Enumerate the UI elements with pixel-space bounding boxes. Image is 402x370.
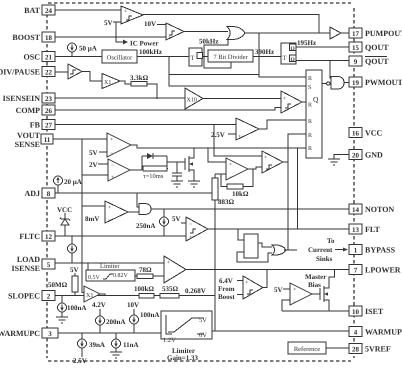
- opamp U18 load amp: [164, 256, 186, 283]
- wire 5V to U1: [113, 21, 121, 23]
- svg-text:19: 19: [352, 79, 360, 87]
- wire 6.4V to U20 plus: [237, 280, 243, 282]
- ground under I5: [56, 317, 68, 323]
- wire U14 output to latch: [283, 134, 306, 162]
- pin 13 FLT: [349, 224, 380, 234]
- svg-text:200nA: 200nA: [106, 318, 125, 326]
- resistor R4 10k feedback: [221, 169, 253, 198]
- svg-text:SENSE: SENSE: [15, 140, 40, 149]
- wire U12 output to tau network: [130, 169, 142, 171]
- svg-text:50 µA: 50 µA: [79, 45, 97, 53]
- svg-text:GND: GND: [365, 151, 383, 160]
- svg-text:0.5V: 0.5V: [88, 275, 101, 281]
- wire 10V to U2: [157, 24, 166, 26]
- wire divider to T flip-flop U4: [253, 56, 281, 58]
- wire U9 to latch R: [302, 102, 306, 104]
- svg-text:10V: 10V: [144, 20, 156, 28]
- wire U2 output to OR gate: [184, 31, 228, 33]
- svg-text:7 Bit Divider: 7 Bit Divider: [213, 54, 248, 61]
- svg-text:WARMUPV: WARMUPV: [365, 328, 402, 337]
- wire U20 to LPOWER: [263, 270, 267, 288]
- svg-text:IC Power: IC Power: [130, 40, 159, 48]
- wire U1 output to pump line: [143, 15, 319, 34]
- pin 21 OSC: [24, 52, 55, 62]
- pin 5 LOAD ISENSE: [12, 255, 55, 273]
- svg-text:50MΩ: 50MΩ: [48, 281, 68, 289]
- tau network node left: [141, 156, 143, 170]
- svg-text:14: 14: [352, 206, 360, 214]
- svg-text:QOUT: QOUT: [365, 57, 389, 66]
- wire IC Power branch: [116, 22, 123, 42]
- pin 2 SLOPEC: [8, 291, 55, 301]
- capacitor C1: [172, 162, 182, 181]
- resistor R3 883: [212, 174, 235, 331]
- wire U11 output to R bus: [131, 145, 306, 148]
- svg-text:5V: 5V: [89, 149, 98, 157]
- svg-text:VCC: VCC: [365, 129, 383, 138]
- svg-text:To: To: [327, 237, 335, 245]
- svg-text:18: 18: [45, 34, 53, 42]
- wire U4 Qbar to QOUTbar: [296, 60, 349, 62]
- wire U13 to comparator U14: [248, 167, 262, 169]
- svg-text:5V: 5V: [70, 266, 79, 274]
- wire ADJ branch to G3: [137, 193, 139, 207]
- svg-text:R: R: [308, 133, 312, 139]
- wire FLT to latch R: [297, 148, 299, 230]
- zener D2: [60, 213, 70, 236]
- divider block 7 bit: [208, 50, 253, 62]
- svg-text:1.2V: 1.2V: [163, 337, 176, 344]
- wire latch R77 feed: [259, 33, 306, 77]
- svg-text:Boost: Boost: [218, 293, 235, 301]
- tau network node right: [166, 156, 168, 169]
- svg-text:X10: X10: [187, 98, 197, 104]
- svg-text:ISENSEIN: ISENSEIN: [3, 94, 41, 103]
- wire bus to U12 plus: [82, 174, 108, 176]
- svg-text:T: T: [191, 55, 195, 62]
- wire X1 to resistor: [120, 81, 131, 84]
- wire 50kHz tap to G1: [204, 38, 228, 57]
- pin 19 PWMOUT: [349, 77, 402, 87]
- current source I4 250nA: [136, 209, 169, 236]
- svg-text:3: 3: [48, 330, 52, 338]
- resistor R6 50M: [48, 273, 78, 296]
- svg-text:250nA: 250nA: [136, 222, 155, 230]
- wire 2.5V to U10: [228, 133, 236, 135]
- diode D1: [142, 153, 167, 159]
- buffer X1 U19: [84, 286, 100, 302]
- current source I7 100nA: [130, 309, 160, 333]
- wire ISENSEIN to X10: [55, 97, 185, 99]
- latch U15 RS: [306, 70, 322, 158]
- wire U3 to divider: [202, 56, 208, 58]
- svg-text:27: 27: [45, 122, 53, 130]
- svg-text:Bias: Bias: [308, 281, 321, 289]
- svg-text:FLTC: FLTC: [19, 232, 40, 241]
- wire QOUTbar branch to G2: [330, 61, 331, 79]
- svg-text:390Hz: 390Hz: [255, 48, 274, 56]
- comparator U14: [262, 151, 283, 173]
- svg-text:2V: 2V: [89, 161, 98, 169]
- limiter block: [86, 263, 135, 281]
- svg-text:S: S: [308, 85, 311, 91]
- svg-text:BYPASS: BYPASS: [365, 246, 396, 255]
- wire FB branch to bus: [214, 125, 262, 157]
- svg-text:Gain=1.33: Gain=1.33: [167, 354, 199, 362]
- svg-text:11nA: 11nA: [123, 341, 139, 349]
- svg-text:10: 10: [352, 308, 360, 316]
- wire COMP to comparator U9: [55, 108, 281, 111]
- current source I6 200nA: [96, 309, 126, 333]
- wire R7 to R8: [154, 295, 160, 297]
- svg-text:X1: X1: [86, 293, 93, 299]
- AND gate G2: [327, 77, 344, 90]
- wire ISET line: [282, 310, 349, 312]
- pin 3 WARMUPC: [0, 328, 58, 338]
- IC boundary dashed border: [48, 2, 351, 4]
- svg-text:PWMOUT: PWMOUT: [365, 78, 402, 87]
- pin 17 PUMPOUT: [349, 28, 402, 38]
- svg-text:0V: 0V: [199, 332, 207, 339]
- pin 26 COMP: [16, 105, 55, 115]
- svg-text:9: 9: [354, 58, 358, 66]
- wire U16 to gate G3: [128, 211, 139, 213]
- wire aux feed y74.5: [169, 74, 259, 76]
- pin 20 GND: [349, 150, 383, 160]
- current source I2 20uA: [54, 176, 82, 193]
- svg-text:535Ω: 535Ω: [162, 285, 179, 293]
- wire 5V to U21: [283, 288, 290, 290]
- wire limiter to opamp U18: [135, 275, 164, 277]
- svg-text:SLOPEC: SLOPEC: [8, 292, 40, 301]
- wire X1 output: [100, 294, 105, 296]
- ground at GND pin: [328, 159, 340, 165]
- opamp U12: [108, 159, 130, 181]
- svg-text:20 µA: 20 µA: [64, 178, 82, 186]
- amp X10 U8: [185, 88, 203, 109]
- wire bus to U16: [82, 205, 105, 207]
- svg-text:Limiter: Limiter: [100, 263, 120, 270]
- pin 10 ISET: [349, 306, 384, 316]
- wire 2V to U12: [98, 163, 108, 165]
- wire LOAD ISENSE line: [55, 262, 164, 264]
- svg-text:7: 7: [354, 267, 358, 275]
- svg-text:DIV/PAUSE: DIV/PAUSE: [0, 68, 40, 77]
- pin 22 DIV/PAUSE: [0, 67, 55, 77]
- current source I1 50uA: [68, 43, 97, 57]
- label 6.4V From Boost: [218, 277, 235, 301]
- comparator U17 5V fault: [186, 217, 208, 241]
- resistor R5 78: [137, 266, 153, 279]
- wire U18 output to LPOWER line: [186, 269, 349, 271]
- resistor R8 535: [160, 285, 179, 298]
- svg-text:10kΩ: 10kΩ: [232, 190, 249, 198]
- wire reference to 5VREF: [326, 347, 349, 349]
- reference block: [288, 342, 326, 354]
- pin 27 FB: [30, 120, 55, 130]
- resistor R1 3.3k: [130, 74, 149, 86]
- svg-text:R: R: [308, 119, 312, 125]
- svg-text:4.2V: 4.2V: [92, 301, 106, 309]
- svg-text:15: 15: [352, 44, 360, 52]
- svg-text:Q: Q: [313, 95, 319, 104]
- svg-text:R: R: [308, 76, 312, 82]
- svg-text:Sinks: Sinks: [316, 255, 333, 263]
- svg-text:COMP: COMP: [16, 106, 41, 115]
- svg-text:VCC: VCC: [57, 206, 72, 214]
- comparator U20 boost 6.4V: [243, 276, 263, 299]
- svg-text:LOAD: LOAD: [17, 255, 40, 264]
- svg-text:2.5V: 2.5V: [211, 131, 225, 139]
- wire node to mosfet gate: [167, 161, 185, 163]
- pin 28 5VREF: [349, 344, 391, 354]
- wire oneshot to gate G4: [258, 243, 272, 247]
- current source I3 below FLTC: [68, 236, 77, 263]
- svg-text:23: 23: [45, 95, 53, 103]
- svg-text:BOOST: BOOST: [12, 33, 40, 42]
- wire FLTC line: [55, 235, 186, 237]
- svg-text:R: R: [308, 146, 312, 152]
- svg-text:6.4V: 6.4V: [219, 277, 233, 285]
- mosfet Q1: [185, 148, 194, 176]
- pin 24 BAT: [24, 5, 55, 15]
- wire U6 output: [82, 72, 102, 82]
- comparator U16 8mV: [105, 201, 128, 224]
- pin 1 BYPASS: [349, 245, 396, 255]
- wire bus y148 to U13 plus: [208, 148, 226, 162]
- pin 11 VOUT SENSE: [15, 131, 53, 149]
- resistor R2 tau: [142, 166, 168, 171]
- wire WARMUPC line: [58, 332, 161, 334]
- svg-text:X1: X1: [104, 80, 111, 86]
- limiter gain block: [161, 311, 212, 344]
- wire U17 to FLT pin: [208, 228, 349, 230]
- svg-text:From: From: [218, 285, 235, 293]
- schmitt buffer U6: [68, 64, 82, 79]
- arrow IC Power: [123, 40, 128, 45]
- wire 5V to U11: [99, 151, 107, 153]
- svg-text:Reference: Reference: [294, 346, 320, 353]
- svg-text:WARMUPC: WARMUPC: [0, 329, 40, 338]
- wire ADJ line: [55, 192, 215, 194]
- svg-text:100kHz: 100kHz: [139, 48, 162, 56]
- svg-text:Current: Current: [308, 246, 333, 254]
- svg-text:OSC: OSC: [24, 53, 41, 62]
- pin 7 LPOWER: [349, 265, 401, 275]
- wire G3 to NOTON: [151, 208, 349, 210]
- pin 9 QOUTbar: [349, 56, 389, 66]
- svg-text:20: 20: [352, 152, 360, 160]
- wire 883 node to U13 minus: [215, 173, 226, 175]
- pin 8 ADJ: [24, 188, 55, 198]
- svg-text:16: 16: [352, 130, 360, 138]
- svg-text:PUMPOUT: PUMPOUT: [365, 29, 402, 38]
- svg-text:39nA: 39nA: [89, 341, 105, 349]
- svg-text:12: 12: [45, 233, 53, 241]
- wire limiter out to WARMUPV: [212, 330, 349, 332]
- current source I8 39nA: [78, 333, 105, 357]
- pump buffer U5: [330, 27, 341, 39]
- pin 18 BOOST: [12, 32, 55, 42]
- svg-text:Q: Q: [291, 46, 296, 52]
- wire SLOPEC line: [55, 295, 139, 297]
- wire oscillator to T flip-flop: [137, 56, 189, 58]
- wire BAT to comparator U1: [55, 9, 121, 11]
- svg-text:4: 4: [354, 329, 358, 337]
- opamp U11: [107, 133, 131, 157]
- svg-text:FLT: FLT: [365, 225, 380, 234]
- ground under Q1: [188, 176, 200, 187]
- svg-text:R: R: [308, 103, 312, 109]
- wire R8 to node: [179, 295, 215, 297]
- pin 4 WARMUPV: [349, 327, 402, 337]
- comparator U10 2.5V: [236, 118, 259, 140]
- oneshot block: [244, 234, 258, 258]
- wire GND pin to ground: [334, 155, 349, 160]
- wire X10 to comparator U9: [203, 98, 281, 100]
- svg-text:28: 28: [352, 346, 360, 354]
- wire R1 to ISENSE line: [147, 84, 157, 99]
- svg-text:24: 24: [45, 7, 53, 15]
- svg-text:ISET: ISET: [365, 307, 384, 316]
- svg-text:VOUT: VOUT: [17, 131, 41, 140]
- svg-text:5VREF: 5VREF: [365, 345, 391, 354]
- wire G1 output to pump buffer: [244, 32, 330, 34]
- wire FLT branch to oneshot: [238, 229, 244, 240]
- wire G2 to PWMOUT: [344, 82, 349, 84]
- T flip-flop U3: [189, 48, 203, 66]
- wire oneshot bottom loop: [237, 252, 272, 262]
- comparator U9: [281, 91, 302, 113]
- svg-text:FB: FB: [30, 121, 41, 130]
- pin 15 QOUT: [349, 42, 389, 52]
- wire U21 feedback: [282, 300, 290, 311]
- pin 21 OSC wire: [55, 56, 102, 58]
- current source I5 100nA: [58, 296, 87, 318]
- svg-text:5V: 5V: [274, 286, 283, 294]
- wire FLTC to U17 plus: [164, 235, 186, 238]
- wire VOUT SENSE to opamp U11: [53, 138, 107, 140]
- ground under I9: [110, 352, 122, 358]
- svg-text:0.268V: 0.268V: [185, 287, 206, 295]
- svg-text:5V: 5V: [172, 215, 181, 223]
- wire U4 Q to QOUT: [296, 46, 349, 48]
- mosfet Q2: [320, 270, 335, 312]
- wire U10 output to latch: [259, 120, 306, 129]
- svg-text:8: 8: [47, 190, 51, 198]
- wire into limiter: [87, 263, 89, 270]
- svg-text:1: 1: [354, 247, 358, 255]
- svg-text:Q: Q: [291, 57, 296, 63]
- svg-text:BAT: BAT: [24, 6, 41, 15]
- svg-text:13: 13: [352, 226, 360, 234]
- svg-text:195Hz: 195Hz: [297, 39, 316, 47]
- svg-text:NOTON: NOTON: [365, 205, 394, 214]
- wire latch S feed: [169, 57, 306, 87]
- pin 22 DIV/PAUSE wire: [55, 71, 68, 73]
- svg-text:ADJ: ADJ: [24, 189, 40, 198]
- svg-text:Oscillator: Oscillator: [107, 55, 133, 62]
- oscillator block: [102, 50, 137, 63]
- label To Current Sinks: [308, 237, 335, 263]
- svg-text:100nA: 100nA: [67, 304, 86, 312]
- label Master Bias: [305, 273, 326, 289]
- wire U21 to mosfet gate: [312, 293, 320, 295]
- svg-text:T: T: [283, 55, 287, 62]
- svg-text:0.82V: 0.82V: [113, 273, 129, 279]
- arrow to BYPASS: [335, 248, 348, 252]
- svg-text:τ=10ms: τ=10ms: [143, 173, 164, 180]
- resistor R7 100k: [134, 285, 154, 298]
- wire FB to comparator U10: [55, 124, 236, 126]
- svg-text:5V: 5V: [199, 317, 207, 324]
- T flip-flop U4: [281, 43, 296, 64]
- current source I9 11nA: [112, 333, 139, 352]
- svg-text:26: 26: [45, 107, 53, 115]
- wire divider bottom loop: [204, 57, 231, 69]
- svg-text:21: 21: [45, 54, 53, 62]
- wire FLTC ext to comparator U17: [164, 235, 186, 238]
- wire Boost to U20 minus: [237, 294, 243, 296]
- svg-text:78Ω: 78Ω: [139, 266, 152, 274]
- pin 23 ISENSEIN: [3, 93, 55, 103]
- opamp U13 gain A: [226, 158, 248, 181]
- svg-text:QOUT: QOUT: [365, 43, 389, 52]
- wire fault OR up to latch R: [287, 162, 289, 250]
- wire latch Q to AND: [322, 83, 327, 85]
- svg-text:50kHz: 50kHz: [199, 38, 218, 46]
- wire 5V to U17: [181, 222, 186, 224]
- opamp U21 master bias: [290, 283, 312, 306]
- wire buffer to PUMPOUT: [341, 32, 349, 34]
- AND gate G3: [139, 204, 151, 215]
- svg-text:2: 2: [47, 293, 51, 301]
- OR gate G1: [227, 27, 245, 40]
- buffer X1 U7: [102, 74, 120, 89]
- pin 16 VCC: [349, 128, 383, 138]
- svg-text:11: 11: [44, 136, 51, 144]
- label Limiter Gain: [167, 347, 199, 362]
- svg-text:883Ω: 883Ω: [218, 198, 235, 206]
- svg-text:17: 17: [352, 30, 360, 38]
- OR gate G4: [272, 245, 286, 255]
- svg-text:5: 5: [47, 261, 51, 269]
- svg-text:2.5V: 2.5V: [73, 357, 87, 365]
- svg-text:10V: 10V: [127, 301, 139, 309]
- svg-text:ISENSE: ISENSE: [12, 264, 40, 273]
- comparator U2 10V: [166, 23, 184, 41]
- wire BOOST to comparator U2: [55, 36, 166, 38]
- svg-text:Master: Master: [305, 273, 326, 281]
- svg-text:5V: 5V: [104, 19, 113, 27]
- comparator U1 5V: [121, 6, 143, 24]
- pin 14 NOTON: [349, 204, 394, 214]
- svg-text:100kΩ: 100kΩ: [134, 285, 154, 293]
- svg-text:LPOWER: LPOWER: [365, 266, 401, 275]
- svg-text:22: 22: [45, 69, 53, 77]
- svg-text:3.3kΩ: 3.3kΩ: [130, 74, 149, 82]
- wire G4 output stub: [284, 249, 297, 251]
- svg-text:8mV: 8mV: [85, 215, 99, 223]
- svg-text:100nA: 100nA: [140, 311, 159, 319]
- ground under C1: [171, 181, 183, 187]
- pin 12 FLTC: [19, 231, 55, 241]
- node bus vertical x82: [82, 139, 84, 293]
